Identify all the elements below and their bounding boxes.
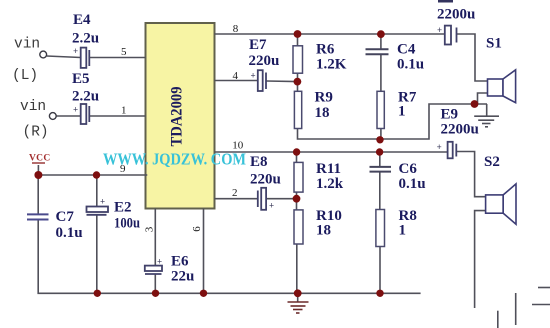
label E9 value	[441, 107, 479, 138]
capacitor E4	[81, 48, 90, 68]
wire pin2 row	[215, 198, 258, 200]
wire pin4 row	[215, 80, 258, 82]
input terminal L circle	[40, 51, 47, 58]
svg-text:2.2u: 2.2u	[72, 31, 99, 47]
svg-text:(R): (R)	[23, 125, 49, 141]
capacitor E8	[258, 188, 266, 210]
wire fragment bottom-right 1	[497, 311, 499, 328]
input terminal R circle	[49, 113, 56, 120]
svg-text:vin: vin	[14, 37, 40, 53]
node R11/R10 dot	[293, 195, 301, 203]
svg-text:4: 4	[233, 70, 239, 82]
svg-text:TDA2009: TDA2009	[169, 87, 186, 147]
label C7 value	[56, 209, 83, 241]
node R8 bottom dot	[376, 290, 383, 297]
label R7 value	[398, 90, 417, 120]
speaker S2	[486, 184, 516, 224]
svg-text:S1: S1	[486, 36, 502, 52]
svg-text:E7: E7	[249, 37, 267, 53]
IC U1 TDA2009 body	[146, 23, 215, 209]
wire fragment right-edge 2	[532, 304, 550, 306]
label E5 value	[72, 71, 99, 105]
ground bottom	[288, 302, 309, 313]
svg-text:R6: R6	[316, 42, 335, 58]
wire pin1 row	[56, 115, 80, 117]
node R10 bottom dot	[294, 289, 302, 297]
node C6 top dot	[376, 148, 383, 155]
node E2 bottom dot	[94, 290, 101, 297]
svg-text:18: 18	[316, 223, 331, 239]
capacitor E5	[81, 104, 90, 124]
svg-text:+: +	[251, 70, 256, 80]
node R11 top dot	[293, 148, 300, 155]
wire pin9 VCC row	[37, 165, 39, 175]
resistor R11	[294, 162, 303, 192]
label R6 value	[316, 42, 347, 73]
wire S1 ground stub	[486, 104, 488, 116]
svg-text:E6: E6	[171, 254, 189, 270]
svg-text:+: +	[73, 46, 78, 56]
svg-text:220u: 220u	[250, 172, 281, 188]
svg-text:100u: 100u	[114, 216, 140, 232]
label E1 ref fragment	[438, 0, 453, 3]
node VCC dot	[34, 171, 42, 179]
wire fragment bottom-right 2	[515, 293, 517, 325]
capacitor C6	[370, 167, 392, 172]
capacitor E2	[87, 207, 109, 215]
svg-text:E4: E4	[73, 12, 91, 28]
svg-text:+: +	[157, 257, 162, 267]
label R10 value	[316, 208, 342, 239]
VCC symbol	[29, 154, 50, 164]
capacitor E1 output top	[445, 26, 457, 45]
svg-text:3: 3	[144, 226, 156, 232]
svg-text:+: +	[437, 25, 442, 35]
resistor R7	[377, 91, 384, 128]
svg-text:1.2k: 1.2k	[316, 176, 344, 192]
svg-text:9: 9	[120, 163, 126, 175]
wire pin10 row	[215, 151, 448, 153]
resistor R10	[294, 210, 303, 244]
node pin6 bottom dot	[200, 290, 207, 297]
svg-text:E8: E8	[250, 154, 268, 170]
svg-text:vin: vin	[20, 99, 46, 115]
svg-text:E9: E9	[441, 107, 459, 123]
capacitor C7	[27, 214, 49, 219]
svg-text:E5: E5	[72, 71, 90, 87]
svg-text:18: 18	[315, 105, 330, 121]
wire C6/R8 column	[379, 152, 381, 167]
label E7 value	[249, 37, 280, 69]
wire C4/R7 column	[380, 34, 382, 49]
capacitor E9	[448, 142, 457, 159]
resistor R8	[376, 210, 385, 247]
label C6 value	[399, 161, 426, 192]
label R9 value	[315, 90, 333, 122]
svg-text:+: +	[100, 197, 105, 207]
svg-text:C6: C6	[399, 161, 418, 177]
svg-text:R11: R11	[316, 161, 341, 177]
capacitor E6	[145, 266, 162, 274]
svg-text:220u: 220u	[249, 53, 280, 69]
svg-text:0.1u: 0.1u	[399, 176, 426, 192]
svg-text:5: 5	[121, 46, 127, 58]
svg-text:8: 8	[233, 23, 239, 35]
node C4 top dot	[377, 30, 385, 38]
svg-text:1.2K: 1.2K	[316, 57, 347, 73]
svg-text:0.1u: 0.1u	[397, 57, 424, 73]
svg-text:C4: C4	[397, 42, 416, 58]
capacitor C4	[366, 49, 389, 54]
wire S2 bottom terminal	[475, 211, 486, 308]
resistor R6	[293, 46, 303, 73]
capacitor E7	[258, 70, 266, 91]
svg-text:VCC: VCC	[29, 154, 50, 164]
wire pin5 row	[47, 56, 81, 58]
wire channel1 feedback bottom	[298, 104, 488, 139]
svg-text:1: 1	[398, 104, 406, 120]
wire E2 column	[96, 175, 98, 207]
label E1 value top	[437, 7, 475, 23]
wire pin8 row	[215, 33, 445, 35]
svg-text:1: 1	[399, 223, 407, 239]
label R11 value	[316, 161, 344, 192]
node R6 top dot	[294, 30, 302, 38]
svg-text:E2: E2	[114, 200, 132, 216]
wire R6 column	[297, 34, 299, 46]
svg-text:+: +	[269, 201, 274, 211]
label E6 value	[171, 254, 194, 285]
ground S1	[474, 116, 499, 127]
svg-text:2.2u: 2.2u	[72, 89, 99, 105]
label C4 value	[397, 42, 424, 73]
wire bottom ground stub	[297, 293, 299, 301]
svg-text:1: 1	[121, 105, 127, 117]
svg-text:+: +	[437, 142, 442, 152]
svg-text:22u: 22u	[171, 269, 194, 285]
wire S1 bottom terminal	[478, 93, 488, 104]
wire pin3 column	[154, 209, 156, 266]
resistor R9	[294, 91, 301, 128]
label E4 value	[72, 12, 99, 47]
label R8 value	[399, 208, 417, 239]
svg-text:2200u: 2200u	[437, 7, 475, 23]
wire ground bus bottom	[37, 175, 39, 214]
svg-text:S2: S2	[484, 154, 500, 170]
svg-text:6: 6	[191, 226, 203, 232]
svg-text:C7: C7	[56, 209, 75, 225]
wire pin6 column	[203, 209, 205, 294]
node S1 return dot	[471, 100, 479, 108]
node R6/R9 dot	[294, 78, 302, 86]
node E6 bottom dot	[152, 290, 159, 297]
node E2 top dot	[93, 171, 100, 178]
svg-text:R9: R9	[315, 90, 333, 106]
wire R11 column	[296, 152, 298, 163]
svg-text:0.1u: 0.1u	[56, 225, 83, 241]
svg-text:10: 10	[232, 140, 244, 152]
speaker S1	[488, 70, 516, 103]
wire fragment right-edge 1	[538, 287, 550, 289]
svg-text:2200u: 2200u	[441, 122, 479, 138]
node R7 bottom dot	[376, 136, 383, 143]
label E8 value	[250, 154, 281, 188]
svg-text:2: 2	[232, 187, 238, 199]
label E2 value	[114, 200, 140, 232]
svg-text:(L): (L)	[12, 68, 38, 84]
svg-text:+: +	[73, 105, 78, 115]
